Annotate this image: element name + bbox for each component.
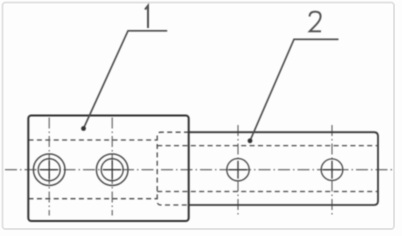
leader 1 dot <box>81 126 86 131</box>
label 1 digit <box>145 6 148 28</box>
part 2 solid outline <box>189 132 379 205</box>
part 1 solid outline <box>28 116 188 222</box>
part 2 hole A circle <box>227 159 249 181</box>
part 1 inner hidden line top <box>29 139 158 141</box>
leader line 2 <box>250 39 339 141</box>
horizontal main center line <box>5 169 392 171</box>
part 1 hole A inner circle <box>38 159 60 181</box>
vertical center line hole A part 2 <box>237 125 239 217</box>
part 1 hole B inner circle <box>101 159 123 181</box>
part 1 inner hidden line bottom <box>29 198 158 200</box>
part 2 hole B circle <box>321 159 343 181</box>
center cross at hole x=49.2 <box>40 169 58 171</box>
leader line 1 <box>84 31 168 129</box>
part 2 hidden left end dashed outline <box>157 132 189 205</box>
part 2 inner hidden line top <box>157 145 377 147</box>
part 1 hole B outer circle <box>96 154 128 186</box>
vertical center line hole A part 1 <box>48 118 50 216</box>
part 2 inner hidden line bottom <box>157 191 377 193</box>
vertical center line hole B part 2 <box>331 125 333 217</box>
part 1 hole A outer circle <box>33 154 65 186</box>
vertical center line hole B part 1 <box>111 118 113 216</box>
label 2 digit <box>310 12 321 32</box>
center cross at hole x=332 <box>323 169 341 171</box>
leader 2 dot <box>248 138 253 143</box>
center cross at hole x=238 <box>229 169 247 171</box>
center cross at hole x=112.2 <box>103 169 121 171</box>
